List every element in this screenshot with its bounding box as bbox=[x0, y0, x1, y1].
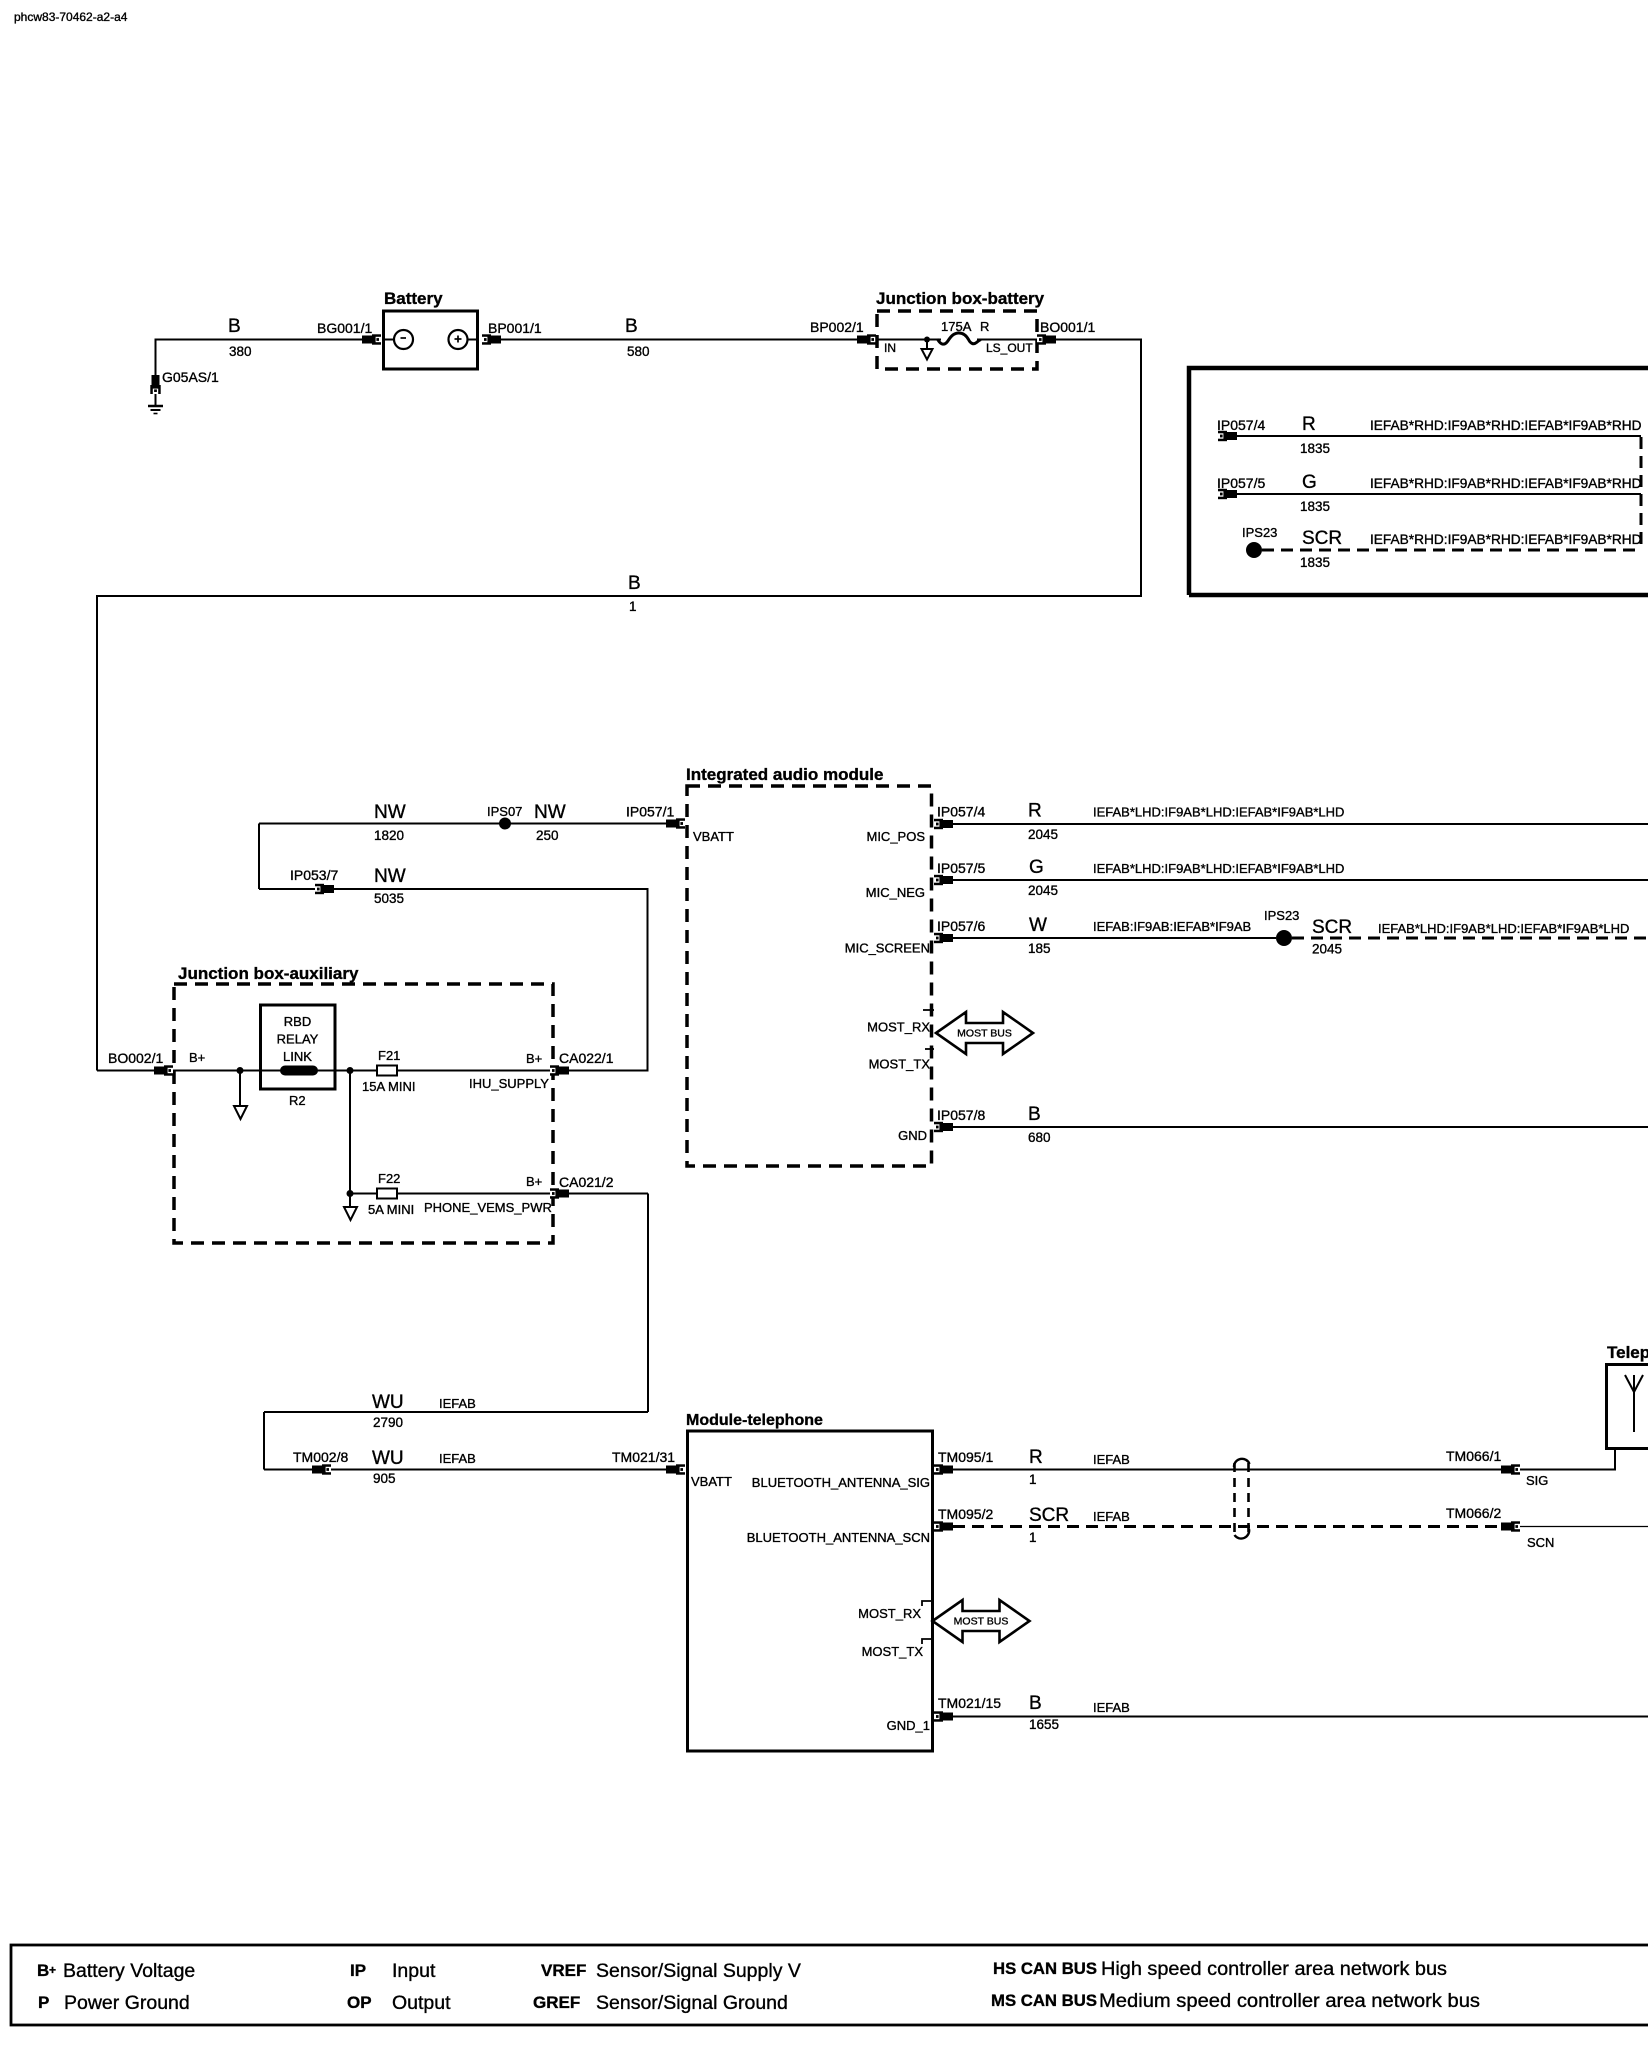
svg-text:R: R bbox=[980, 319, 989, 334]
svg-text:BG001/1: BG001/1 bbox=[317, 320, 372, 336]
svg-text:Module-telephone: Module-telephone bbox=[686, 1412, 823, 1429]
svg-text:HS CAN BUS: HS CAN BUS bbox=[993, 1960, 1097, 1978]
svg-text:IEFAB*LHD:IF9AB*LHD:IEFAB*IF9A: IEFAB*LHD:IF9AB*LHD:IEFAB*IF9AB*LHD bbox=[1378, 921, 1629, 936]
svg-text:SIG: SIG bbox=[1526, 1473, 1548, 1488]
svg-text:680: 680 bbox=[1028, 1130, 1051, 1145]
svg-text:W: W bbox=[1029, 915, 1047, 936]
svg-text:SCN: SCN bbox=[1527, 1535, 1554, 1550]
svg-text:B+: B+ bbox=[526, 1174, 542, 1189]
svg-text:BLUETOOTH_ANTENNA_SCN: BLUETOOTH_ANTENNA_SCN bbox=[747, 1530, 930, 1545]
svg-text:MOST_RX: MOST_RX bbox=[867, 1020, 930, 1035]
svg-text:GND_1: GND_1 bbox=[887, 1718, 930, 1733]
svg-text:G05AS/1: G05AS/1 bbox=[162, 369, 219, 385]
svg-text:Input: Input bbox=[392, 1960, 436, 1982]
svg-text:Medium speed controller area n: Medium speed controller area network bus bbox=[1099, 1990, 1480, 2012]
svg-text:CA022/1: CA022/1 bbox=[559, 1050, 614, 1066]
svg-text:NW: NW bbox=[374, 866, 406, 887]
svg-text:175A: 175A bbox=[941, 319, 972, 334]
svg-text:NW: NW bbox=[534, 802, 566, 823]
svg-text:IEFAB:IF9AB:IEFAB*IF9AB: IEFAB:IF9AB:IEFAB*IF9AB bbox=[1093, 919, 1251, 934]
svg-text:IEFAB*LHD:IF9AB*LHD:IEFAB*IF9A: IEFAB*LHD:IF9AB*LHD:IEFAB*IF9AB*LHD bbox=[1093, 861, 1344, 876]
svg-text:TM095/2: TM095/2 bbox=[938, 1506, 993, 1522]
svg-text:IP057/4: IP057/4 bbox=[937, 804, 985, 820]
svg-text:380: 380 bbox=[229, 344, 252, 359]
svg-text:5035: 5035 bbox=[374, 891, 404, 906]
svg-text:5A MINI: 5A MINI bbox=[368, 1202, 414, 1217]
svg-text:VBATT: VBATT bbox=[693, 829, 734, 844]
svg-text:BO002/1: BO002/1 bbox=[108, 1050, 163, 1066]
svg-text:TM021/31: TM021/31 bbox=[612, 1449, 675, 1465]
svg-text:2045: 2045 bbox=[1028, 883, 1058, 898]
svg-text:B: B bbox=[1029, 1693, 1042, 1714]
svg-text:905: 905 bbox=[373, 1471, 396, 1486]
svg-text:1: 1 bbox=[629, 599, 637, 614]
svg-text:OP: OP bbox=[347, 1993, 372, 2012]
svg-text:G: G bbox=[1029, 857, 1044, 878]
svg-text:IEFAB*RHD:IF9AB*RHD:IEFAB*IF9A: IEFAB*RHD:IF9AB*RHD:IEFAB*IF9AB*RHD bbox=[1370, 476, 1642, 491]
svg-text:BP001/1: BP001/1 bbox=[488, 320, 542, 336]
svg-text:IHU_SUPPLY: IHU_SUPPLY bbox=[469, 1076, 549, 1091]
svg-text:IP057/1: IP057/1 bbox=[626, 804, 674, 820]
svg-text:F22: F22 bbox=[378, 1171, 400, 1186]
svg-text:IPS23: IPS23 bbox=[1242, 525, 1277, 540]
svg-text:IP057/6: IP057/6 bbox=[937, 918, 985, 934]
svg-text:IN: IN bbox=[884, 341, 896, 355]
svg-text:Sensor/Signal Supply V: Sensor/Signal Supply V bbox=[596, 1960, 801, 1982]
svg-text:High speed controller area net: High speed controller area network bus bbox=[1101, 1958, 1447, 1980]
svg-text:2045: 2045 bbox=[1312, 942, 1342, 957]
svg-text:SCR: SCR bbox=[1312, 917, 1352, 938]
svg-text:2045: 2045 bbox=[1028, 827, 1058, 842]
svg-text:Integrated audio module: Integrated audio module bbox=[686, 765, 883, 784]
svg-text:IPS23: IPS23 bbox=[1264, 908, 1299, 923]
svg-text:1835: 1835 bbox=[1300, 441, 1330, 456]
svg-text:MS CAN BUS: MS CAN BUS bbox=[991, 1992, 1097, 2010]
svg-text:185: 185 bbox=[1028, 941, 1051, 956]
svg-text:B: B bbox=[625, 316, 638, 337]
svg-text:MIC_SCREEN: MIC_SCREEN bbox=[845, 941, 930, 956]
svg-text:LINK: LINK bbox=[283, 1049, 312, 1064]
svg-text:Battery Voltage: Battery Voltage bbox=[63, 1960, 195, 1982]
svg-text:+: + bbox=[49, 1963, 56, 1977]
svg-text:250: 250 bbox=[536, 828, 559, 843]
svg-text:R: R bbox=[1029, 1447, 1043, 1468]
svg-text:RELAY: RELAY bbox=[277, 1032, 319, 1047]
svg-text:R2: R2 bbox=[289, 1093, 306, 1108]
svg-text:IEFAB*LHD:IF9AB*LHD:IEFAB*IF9A: IEFAB*LHD:IF9AB*LHD:IEFAB*IF9AB*LHD bbox=[1093, 805, 1344, 820]
svg-text:MIC_NEG: MIC_NEG bbox=[866, 885, 925, 900]
svg-text:MOST_RX: MOST_RX bbox=[858, 1606, 921, 1621]
svg-text:MOST BUS: MOST BUS bbox=[957, 1028, 1012, 1040]
svg-text:PHONE_VEMS_PWR: PHONE_VEMS_PWR bbox=[424, 1200, 552, 1215]
svg-text:IEFAB*RHD:IF9AB*RHD:IEFAB*IF9A: IEFAB*RHD:IF9AB*RHD:IEFAB*IF9AB*RHD bbox=[1370, 532, 1642, 547]
svg-text:GREF: GREF bbox=[533, 1993, 580, 2012]
svg-text:IP057/4: IP057/4 bbox=[1217, 417, 1265, 433]
svg-text:Junction box-battery: Junction box-battery bbox=[876, 289, 1045, 308]
svg-text:TM002/8: TM002/8 bbox=[293, 1449, 348, 1465]
svg-text:IEFAB: IEFAB bbox=[1093, 1700, 1130, 1715]
svg-text:IP057/5: IP057/5 bbox=[937, 860, 985, 876]
svg-text:1: 1 bbox=[1029, 1530, 1037, 1545]
svg-text:IP057/8: IP057/8 bbox=[937, 1107, 985, 1123]
svg-text:VREF: VREF bbox=[541, 1961, 586, 1980]
svg-text:GND: GND bbox=[898, 1128, 927, 1143]
svg-text:SCR: SCR bbox=[1029, 1505, 1069, 1526]
svg-text:1835: 1835 bbox=[1300, 499, 1330, 514]
svg-text:Battery: Battery bbox=[384, 289, 443, 308]
svg-text:B+: B+ bbox=[526, 1051, 542, 1066]
svg-text:IP: IP bbox=[350, 1961, 366, 1980]
svg-text:IEFAB: IEFAB bbox=[1093, 1509, 1130, 1524]
svg-text:IPS07: IPS07 bbox=[487, 804, 522, 819]
svg-text:MOST_TX: MOST_TX bbox=[869, 1057, 931, 1072]
svg-text:B: B bbox=[228, 316, 241, 337]
svg-text:R: R bbox=[1302, 414, 1316, 435]
svg-text:B+: B+ bbox=[189, 1050, 205, 1065]
svg-text:LS_OUT: LS_OUT bbox=[986, 341, 1033, 355]
svg-text:CA021/2: CA021/2 bbox=[559, 1174, 614, 1190]
svg-text:MOST_TX: MOST_TX bbox=[862, 1644, 924, 1659]
svg-text:SCR: SCR bbox=[1302, 528, 1342, 549]
svg-text:RBD: RBD bbox=[284, 1014, 311, 1029]
svg-text:TM066/2: TM066/2 bbox=[1446, 1505, 1501, 1521]
svg-text:B: B bbox=[1028, 1104, 1041, 1125]
svg-text:F21: F21 bbox=[378, 1048, 400, 1063]
svg-text:IP057/5: IP057/5 bbox=[1217, 475, 1265, 491]
svg-text:1: 1 bbox=[1029, 1472, 1037, 1487]
svg-text:WU: WU bbox=[372, 1392, 404, 1413]
svg-text:MIC_POS: MIC_POS bbox=[866, 829, 925, 844]
svg-text:B: B bbox=[37, 1961, 49, 1980]
svg-text:Output: Output bbox=[392, 1992, 451, 2014]
svg-text:B: B bbox=[628, 573, 641, 594]
svg-text:BO001/1: BO001/1 bbox=[1040, 319, 1095, 335]
svg-text:BP002/1: BP002/1 bbox=[810, 319, 864, 335]
svg-text:Telephone ant: Telephone ant bbox=[1607, 1343, 1648, 1362]
svg-text:WU: WU bbox=[372, 1448, 404, 1469]
svg-text:IEFAB: IEFAB bbox=[439, 1396, 476, 1411]
svg-text:TM095/1: TM095/1 bbox=[938, 1449, 993, 1465]
svg-text:VBATT: VBATT bbox=[691, 1474, 732, 1489]
svg-text:Power Ground: Power Ground bbox=[64, 1992, 190, 2014]
svg-text:phcw83-70462-a2-a4: phcw83-70462-a2-a4 bbox=[14, 10, 128, 24]
svg-text:1835: 1835 bbox=[1300, 555, 1330, 570]
svg-text:1655: 1655 bbox=[1029, 1717, 1059, 1732]
svg-text:Sensor/Signal Ground: Sensor/Signal Ground bbox=[596, 1992, 788, 2014]
svg-text:IEFAB*RHD:IF9AB*RHD:IEFAB*IF9A: IEFAB*RHD:IF9AB*RHD:IEFAB*IF9AB*RHD bbox=[1370, 418, 1642, 433]
svg-text:2790: 2790 bbox=[373, 1415, 403, 1430]
svg-text:TM066/1: TM066/1 bbox=[1446, 1448, 1501, 1464]
svg-text:R: R bbox=[1028, 801, 1042, 822]
svg-text:MOST BUS: MOST BUS bbox=[954, 1616, 1009, 1628]
svg-text:580: 580 bbox=[627, 344, 650, 359]
svg-text:NW: NW bbox=[374, 802, 406, 823]
svg-text:1820: 1820 bbox=[374, 828, 404, 843]
svg-text:P: P bbox=[38, 1993, 49, 2012]
svg-text:IP053/7: IP053/7 bbox=[290, 867, 338, 883]
svg-text:IEFAB: IEFAB bbox=[1093, 1452, 1130, 1467]
svg-text:TM021/15: TM021/15 bbox=[938, 1695, 1001, 1711]
svg-text:BLUETOOTH_ANTENNA_SIG: BLUETOOTH_ANTENNA_SIG bbox=[752, 1475, 930, 1490]
svg-text:Junction box-auxiliary: Junction box-auxiliary bbox=[178, 964, 359, 983]
svg-text:G: G bbox=[1302, 472, 1317, 493]
svg-text:IEFAB: IEFAB bbox=[439, 1451, 476, 1466]
svg-text:15A MINI: 15A MINI bbox=[362, 1079, 415, 1094]
